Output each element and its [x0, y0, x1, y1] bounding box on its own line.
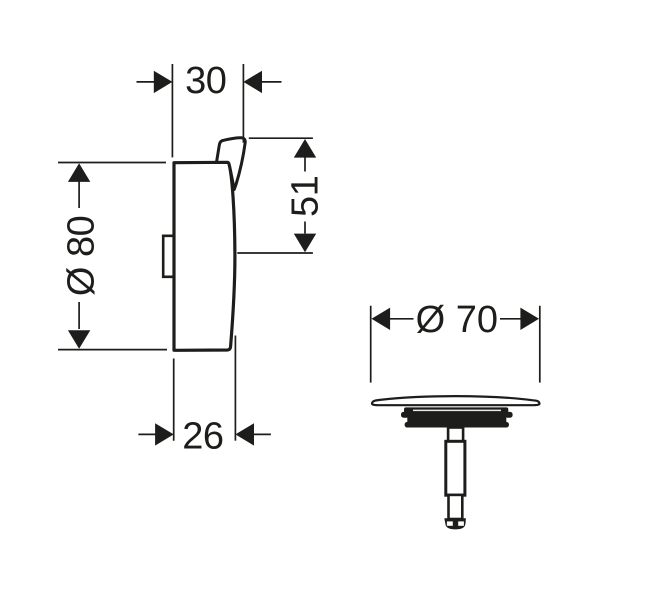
- svg-text:Ø 70: Ø 70: [416, 299, 498, 341]
- arrowhead pointing right at 30 left: [154, 71, 173, 93]
- foot right window: [458, 521, 464, 525]
- leader line right of 30: [262, 81, 282, 83]
- dimension 51 (lever height): [237, 138, 313, 253]
- arrowhead pointing up at 51 top: [294, 139, 316, 158]
- gasket right nub: [505, 412, 513, 418]
- dimension 26 (bottom depth): [138, 336, 271, 441]
- extension line left of 70: [370, 306, 372, 383]
- extension line right of 70: [539, 306, 541, 383]
- leader line lower of 51: [304, 222, 306, 234]
- arrowhead pointing down at 51 bottom: [294, 234, 316, 253]
- arrowhead pointing up at 80 top: [68, 163, 90, 182]
- extension line bottom of 51: [237, 252, 313, 254]
- dimension Ø80 (escutcheon height): [58, 163, 167, 350]
- arrowhead pointing right at 26 left: [155, 423, 174, 445]
- leader line right of 70: [500, 318, 521, 320]
- leader line lower of 80: [78, 302, 80, 329]
- svg-text:26: 26: [182, 415, 223, 457]
- extension line right of 30: [242, 64, 244, 143]
- extension line top of 80: [58, 162, 166, 164]
- arrowhead pointing down at 80 bottom: [68, 330, 90, 349]
- dimension Ø70 (plug cap diameter): [371, 306, 540, 383]
- svg-text:Ø 80: Ø 80: [60, 216, 102, 296]
- foot left window: [447, 521, 453, 525]
- leader line right of 26: [254, 433, 271, 435]
- leader line left of 26: [138, 433, 155, 435]
- plug foot: [444, 518, 466, 529]
- leader line upper of 80: [78, 181, 80, 208]
- gasket ring highlight: [413, 410, 501, 412]
- extension line right of 26: [234, 336, 236, 441]
- stem section middle: [446, 441, 465, 495]
- dimension 30 (top width): [137, 64, 282, 157]
- gasket ring lower: [405, 422, 509, 428]
- arrowhead pointing left at 30 right: [243, 71, 262, 93]
- svg-text:30: 30: [185, 60, 226, 102]
- arrowhead pointing right at 70 right: [520, 308, 539, 330]
- svg-text:51: 51: [284, 176, 326, 217]
- escutcheon body (side view): [174, 162, 235, 350]
- extension line top of 51: [249, 137, 313, 139]
- extension line left of 26: [173, 359, 175, 441]
- leader line upper of 51: [304, 157, 306, 172]
- leader line left of 70: [390, 318, 414, 320]
- stem section upper: [448, 428, 463, 442]
- gasket body: [407, 411, 506, 423]
- extension line bottom of 80: [58, 349, 167, 351]
- lever on top of escutcheon: [216, 138, 245, 190]
- gasket ring upper: [404, 407, 508, 413]
- stem section lower: [449, 495, 463, 519]
- extension line left of 30: [171, 64, 173, 157]
- arrowhead pointing left at 70 left: [372, 308, 391, 330]
- clip tab on escutcheon left side: [163, 236, 176, 277]
- leader line left of 30: [137, 81, 155, 83]
- plug cap (domed lid): [372, 396, 540, 405]
- gasket left nub: [401, 412, 409, 418]
- arrowhead pointing left at 26 right: [235, 423, 254, 445]
